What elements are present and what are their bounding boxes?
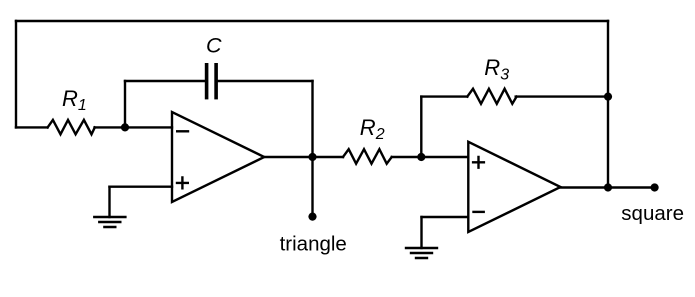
resistor R1 — [48, 120, 95, 134]
svg-text:R3: R3 — [484, 55, 509, 83]
wire: U2 inverting input horizontal — [422, 216, 469, 218]
svg-text:C: C — [206, 33, 222, 57]
svg-text:square: square — [621, 202, 684, 225]
R3 feedback junction dot — [604, 93, 612, 101]
wire: left vertical feedback — [15, 21, 17, 127]
wire: node A up to capacitor branch — [124, 81, 126, 127]
wire: R1 left lead — [16, 126, 48, 128]
wire: U1 non-inverting input horizontal — [110, 185, 173, 187]
ground (U1) — [94, 217, 125, 227]
op-amp U1 body — [172, 112, 264, 202]
wire: square node to output terminal — [608, 186, 655, 188]
triangle output terminal dot — [308, 213, 316, 221]
triangle node junction dot — [308, 153, 316, 161]
svg-text:R1: R1 — [62, 86, 87, 114]
svg-text:R2: R2 — [360, 115, 385, 143]
wire: right vertical (R3 node down to output node) — [607, 97, 609, 188]
resistor R2 — [343, 149, 392, 164]
capacitor C left plate — [205, 65, 209, 98]
wire: triangle node down to terminal — [311, 157, 313, 217]
op-amp U2 plus sign — [473, 157, 484, 168]
op-amp U2 minus sign — [474, 211, 484, 213]
op-amp U1 plus sign — [177, 178, 188, 189]
wire: R3 left lead — [421, 95, 467, 97]
wire: capacitor branch left horizontal — [125, 80, 205, 82]
square node junction dot — [604, 183, 612, 191]
wire: R3 right lead to right feedback node — [516, 95, 608, 97]
svg-text:triangle: triangle — [280, 232, 347, 255]
wire: capacitor branch right horizontal — [218, 80, 313, 82]
wire: node A to op-amp U1 inverting input — [125, 126, 172, 128]
wire: U2 inverting input down to ground — [420, 217, 422, 248]
wire: triangle node to R2 — [313, 156, 344, 158]
ground (U2) — [406, 248, 437, 258]
wire: node B to U2 non-inverting input — [421, 156, 468, 158]
wire: capacitor branch down to triangle node — [311, 81, 313, 157]
node A junction dot — [121, 123, 129, 131]
op-amp U2 body — [468, 142, 560, 232]
node B junction dot — [417, 153, 425, 161]
resistor R3 — [467, 89, 516, 104]
wire: R1 right lead to node A — [95, 126, 126, 128]
wire: R2 to node B — [392, 156, 422, 158]
capacitor C right plate — [214, 65, 218, 98]
op-amp U1 minus sign — [177, 130, 188, 132]
wire: U1 output to triangle node — [264, 156, 312, 158]
wire: right vertical feedback (top to R3 node) — [607, 21, 609, 97]
wire: node B up to R3 branch — [420, 97, 422, 157]
wire: U2 output to square node — [561, 186, 609, 188]
wire: top horizontal feedback — [16, 20, 608, 22]
wire: U1 non-inverting input down to ground — [108, 187, 110, 217]
square output terminal dot — [651, 183, 659, 191]
